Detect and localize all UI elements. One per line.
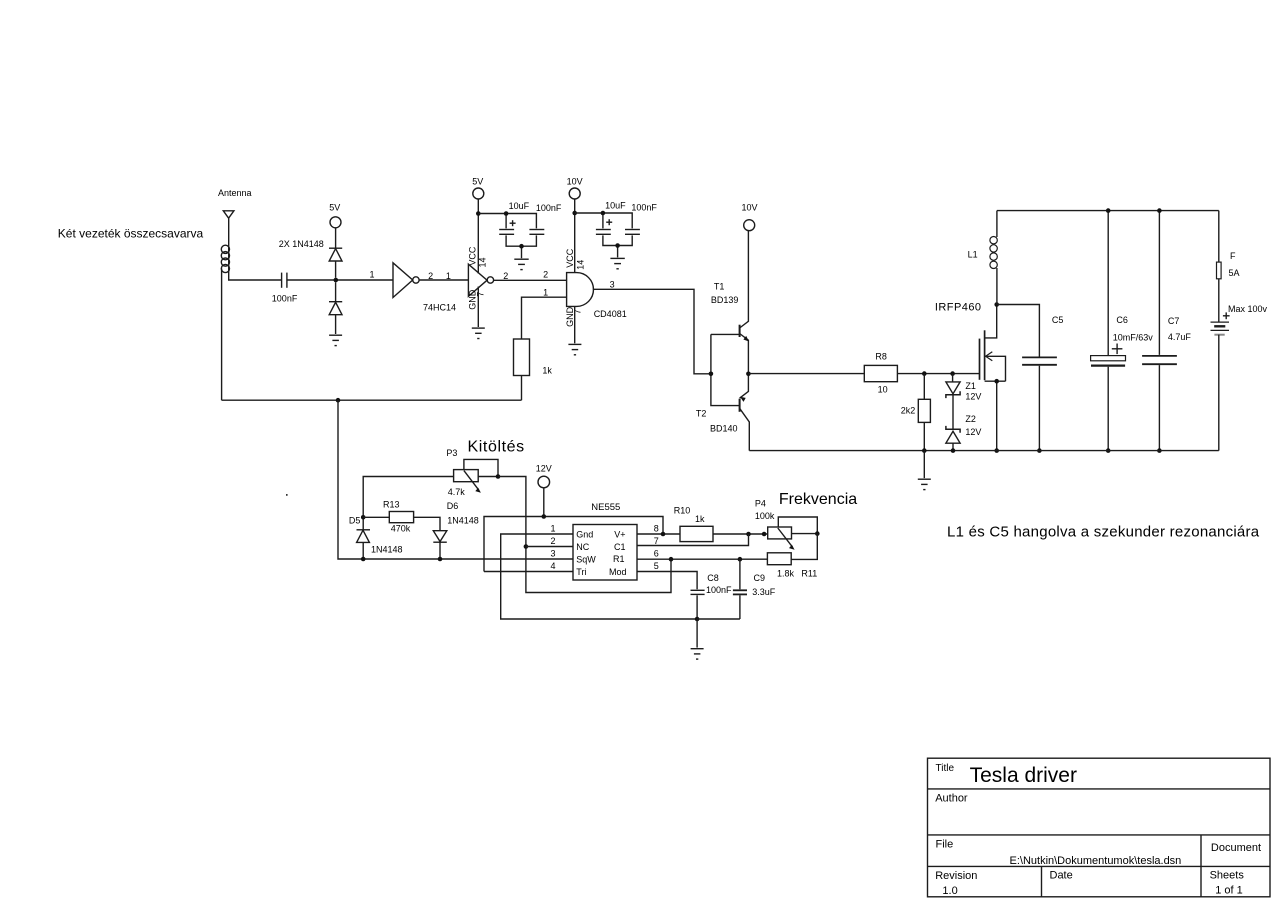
plus mark [510,220,516,226]
wire pin2 stub [526,546,573,548]
svg-text:C9: C9 [754,573,766,583]
resistor R8 [864,365,897,381]
ground (output stage) [918,479,931,489]
capacitor C6 electrolytic [1091,211,1126,451]
svg-text:SqW: SqW [576,554,596,564]
svg-text:C1: C1 [614,542,626,552]
svg-text:4.7k: 4.7k [448,487,466,497]
svg-text:1N4148: 1N4148 [447,516,479,526]
svg-text:6: 6 [654,548,659,558]
svg-text:T2: T2 [696,409,707,419]
node junction [361,557,366,562]
fuse F 5A [1217,211,1222,322]
svg-text:Frekvencia: Frekvencia [779,491,857,508]
svg-text:C5: C5 [1052,315,1064,325]
wire decoupling top rail 10V [575,213,633,228]
svg-text:10V: 10V [567,177,583,187]
plus mark C6 [1112,344,1123,355]
svg-text:1.0: 1.0 [942,885,957,897]
capacitor C7 [1142,211,1177,451]
svg-text:7: 7 [654,536,659,546]
svg-text:12V: 12V [965,392,981,402]
wire AND output to driver bases [593,289,711,374]
node junction [922,371,927,376]
svg-text:BD139: BD139 [711,295,739,305]
node junction source rail [994,448,999,453]
capacitor 100nF (5V) [529,230,544,235]
inverter U1B 74HC14 [468,264,493,296]
svg-text:1: 1 [370,270,375,280]
wire pin5 to C8 [637,572,697,590]
svg-text:R10: R10 [674,506,691,516]
resistor 2k2 [918,374,930,451]
transistor Q T2 BD140 [740,374,750,451]
AND gate U2 CD4081 [567,273,594,307]
stray period mark [286,494,288,496]
svg-text:V+: V+ [614,529,625,539]
svg-text:10mF/63v: 10mF/63v [1113,333,1154,343]
svg-text:R11: R11 [801,569,817,579]
inverter U1A 74HC14 [393,263,419,298]
node junction D5/R13 [361,515,366,520]
transistor Q T1 BD139 [740,231,749,374]
svg-text:L1: L1 [968,250,978,260]
node junction [438,557,443,562]
wire base tie [711,334,740,405]
wire emitters to R8 [748,373,864,375]
wire VCC line inv2 [477,199,479,274]
svg-text:R8: R8 [875,352,887,362]
wire pin1 gnd loop [501,534,697,619]
svg-text:8: 8 [654,523,659,533]
wire top rail [997,210,1219,212]
svg-text:1k: 1k [542,365,552,375]
svg-text:Gnd: Gnd [576,529,593,539]
svg-text:4.7uF: 4.7uF [1168,332,1192,342]
svg-text:D5: D5 [349,516,361,526]
svg-text:C6: C6 [1116,315,1128,325]
svg-text:1: 1 [446,271,451,281]
title block frame [928,758,1271,897]
node junction [572,211,577,216]
potentiometer P4 100k [768,517,818,550]
svg-text:12V: 12V [965,427,981,437]
node junction [601,211,606,216]
svg-text:10V: 10V [742,203,758,213]
svg-text:100nF: 100nF [536,203,562,213]
ground (10V decoupling) [610,258,624,268]
potentiometer P3 4.7k [454,459,498,492]
svg-text:Tesla driver: Tesla driver [970,764,1077,787]
svg-text:100nF: 100nF [706,585,732,595]
svg-text:Mod: Mod [609,567,627,577]
svg-text:L1 és C5 hangolva a szekunder: L1 és C5 hangolva a szekunder rezonanciá… [947,523,1260,540]
wire P3 to pin2/6 [498,477,671,593]
resistor R10 1k [680,526,768,541]
svg-text:Sheets: Sheets [1210,869,1245,881]
svg-text:VCC: VCC [565,248,575,268]
svg-text:Két vezeték összecsavarva: Két vezeték összecsavarva [58,226,204,240]
svg-text:F: F [1230,251,1236,261]
wire pin6 route [637,558,767,560]
capacitor 100nF (10V) [625,230,640,235]
node junction 12V [542,514,547,519]
svg-text:3: 3 [550,548,555,558]
diode clamp upper [329,248,342,278]
svg-text:Title: Title [936,763,955,774]
svg-text:T1: T1 [714,282,725,292]
power 12V [536,463,552,487]
node junction [1157,448,1162,453]
svg-text:100k: 100k [755,511,775,521]
antenna symbol [223,211,234,246]
ground (AND gate) [568,344,581,354]
wire decoupling top rail 5V [478,214,536,229]
node junction emitters [746,372,751,377]
capacitor C9 3.3uF [733,559,747,619]
wire coil to bottom rail [221,269,223,401]
wire inv2 out [494,279,567,281]
node junction [334,278,339,283]
svg-text:100nF: 100nF [631,203,657,213]
node junction P3 wiper [496,474,501,479]
diode D6 1N4148 [433,531,447,559]
svg-text:Z1: Z1 [965,381,976,391]
capacitor 100nF (input) [282,273,287,288]
power 5V (logic) [472,177,484,200]
svg-text:P4: P4 [755,499,766,509]
wire pin4 stub [484,571,573,573]
zener Z1 [946,374,960,430]
ground (5V decoupling) [514,259,528,269]
mosfet Q3 IRFP460 [980,305,1006,451]
node junction pin2 tap [524,544,529,549]
svg-text:10: 10 [878,385,888,395]
capacitor C8 100nF [691,590,705,594]
node junction pin8 [661,532,666,537]
svg-text:NC: NC [576,542,589,552]
wire decoupling bottom 5V [506,235,536,258]
svg-text:4: 4 [550,561,555,571]
svg-text:3.3uF: 3.3uF [752,587,776,597]
svg-text:100nF: 100nF [272,294,298,304]
svg-text:CD4081: CD4081 [594,309,627,319]
svg-text:Max 100v: Max 100v [1228,304,1268,314]
svg-text:2X 1N4148: 2X 1N4148 [279,239,324,249]
plus mark [606,219,612,225]
wire feedback bottom rail [222,399,522,401]
svg-text:14: 14 [477,257,487,267]
svg-text:E:\Nutkin\Dokumentumok\tesla.d: E:\Nutkin\Dokumentumok\tesla.dsn [1010,855,1182,867]
svg-text:Document: Document [1211,842,1261,854]
node junction [504,211,509,216]
svg-text:Date: Date [1050,869,1073,881]
node junction pin6 [669,557,674,562]
svg-text:470k: 470k [391,524,411,534]
svg-text:Tri: Tri [576,567,586,577]
svg-text:74HC14: 74HC14 [423,303,456,313]
power 10V (logic) [567,177,583,200]
wire GND line inv2 [477,287,479,328]
svg-text:BD140: BD140 [710,424,738,434]
svg-text:5A: 5A [1229,268,1240,278]
svg-text:Revision: Revision [935,870,977,882]
svg-text:C7: C7 [1168,316,1180,326]
svg-text:5V: 5V [329,203,340,213]
wire 5V to diode [335,228,337,248]
wire pin8 stub [637,533,680,535]
svg-text:2: 2 [543,270,548,280]
node junction [615,243,620,248]
node junction [922,448,927,453]
node junction [1106,448,1111,453]
resistor R11 1.8k [767,553,791,565]
wire pin7 route [637,534,749,546]
node junction [1106,208,1111,213]
svg-text:3: 3 [610,279,615,289]
diode D5 1N4148 [357,530,371,559]
svg-text:D6: D6 [447,501,459,511]
svg-text:R1: R1 [613,554,625,564]
node junction C9 tap [738,557,743,562]
svg-text:1.8k: 1.8k [777,569,795,579]
battery Max 100v [1211,322,1230,451]
node junction P4 wiper [815,531,820,536]
svg-text:File: File [936,839,954,851]
wire gnd link [697,619,740,648]
svg-text:IRFP460: IRFP460 [935,301,982,313]
svg-text:5: 5 [654,561,659,571]
wire feedback drop to 555 [338,400,573,559]
svg-text:Z2: Z2 [965,414,976,424]
wire inv1 out [419,279,468,281]
node junction [336,398,341,403]
ground (555) [691,649,704,659]
zener Z2 [946,426,960,451]
wire P3 left branch [363,477,453,530]
capacitor 10uF (5V) [499,230,514,235]
wire decoupling bottom 10V [603,235,632,257]
svg-text:12V: 12V [536,463,552,473]
svg-text:VCC: VCC [467,246,477,266]
capacitor C5 [997,305,1057,451]
wire GND line AND [574,306,576,343]
svg-text:10uF: 10uF [605,201,626,211]
resistor 1k feedback [514,297,567,400]
wire R8 to gate [897,373,979,375]
wire 12V drop [543,488,545,517]
wire ground stub [923,451,925,479]
node junction [1037,448,1042,453]
svg-text:7: 7 [476,292,486,297]
wire VCC line AND [574,199,576,273]
node junction gnd [695,617,700,622]
ground (clamp) [329,335,342,345]
svg-text:Antenna: Antenna [218,188,252,198]
svg-text:2: 2 [428,271,433,281]
svg-text:2: 2 [550,536,555,546]
node junction [762,532,767,537]
ground (inv2) [472,328,485,338]
node junction drain [994,302,999,307]
node junction vcc [476,211,481,216]
svg-text:C8: C8 [707,573,719,583]
wire cap to node [287,279,393,281]
wire antenna row [229,246,281,280]
wire bottom rail [749,450,1219,452]
svg-text:P3: P3 [446,448,457,458]
node junction [951,448,956,453]
wire 12V rail to pins 4 and 8 [484,517,663,572]
node junction [746,532,751,537]
svg-text:1: 1 [550,523,555,533]
inductor L1 [990,211,997,305]
wire P4 to R11 [791,534,817,560]
svg-text:1 of 1: 1 of 1 [1215,885,1243,897]
node junction source [994,379,999,384]
IC NE555 box [573,525,637,581]
svg-text:5V: 5V [472,177,483,187]
inductor pickup coil [221,245,229,272]
capacitor 10uF (10V) [596,230,611,235]
svg-text:1k: 1k [695,514,705,524]
node junction [519,244,524,249]
node junction [950,371,955,376]
svg-text:1: 1 [543,288,548,298]
wire C8 bottom [696,595,698,619]
svg-text:Kitöltés: Kitöltés [468,439,525,456]
svg-text:10uF: 10uF [509,201,530,211]
svg-text:R13: R13 [383,499,400,509]
power 5V (clamp) [329,203,341,228]
svg-text:1N4148: 1N4148 [371,544,403,554]
svg-text:NE555: NE555 [591,502,620,513]
svg-text:14: 14 [575,260,585,270]
plus mark battery [1223,312,1230,319]
node junction [1157,208,1162,213]
svg-text:2k2: 2k2 [901,406,916,416]
power 10V (driver) [742,203,758,231]
svg-text:Author: Author [935,792,968,804]
node junction bases [709,372,714,377]
resistor R13 470k [363,512,440,531]
diode clamp lower [329,282,342,334]
